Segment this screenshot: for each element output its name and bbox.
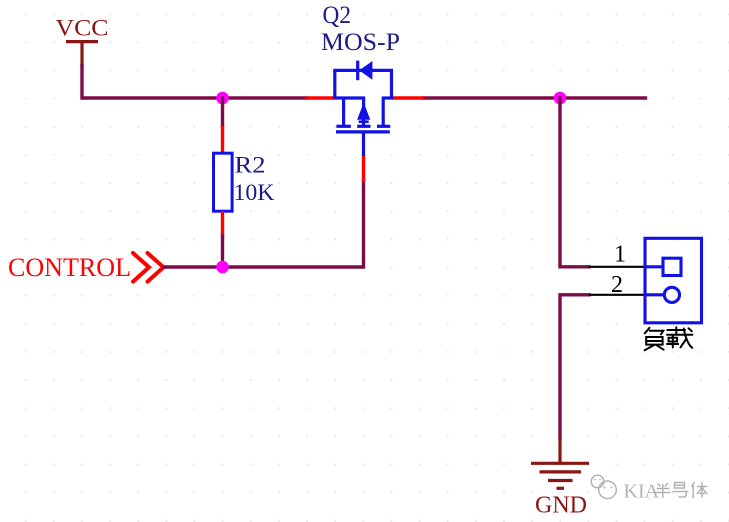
pin R2 pin2 (red) (221, 211, 224, 237)
svg-text:MOS-P: MOS-P (321, 29, 400, 56)
diode triangle (359, 61, 372, 80)
pin J1 pin 1 (black) (589, 266, 646, 268)
svg-text:VCC: VCC (56, 16, 109, 42)
junction at VCC rail / R2 (216, 92, 229, 105)
source internal step (382, 96, 393, 99)
wire load branch pin2 to GND (560, 295, 589, 438)
watermark text 半导体 (655, 482, 708, 498)
wire VCC stem to rail corner (82, 66, 307, 99)
导 (673, 483, 689, 498)
left vertical (drain) (333, 70, 336, 98)
pin R2 pin1 (red) (221, 126, 224, 154)
source contact bar (377, 125, 390, 128)
svg-text:Q2: Q2 (323, 2, 352, 29)
junction at CONTROL / R2 (216, 261, 229, 274)
pin Q2 gate (red) (362, 155, 365, 182)
负 (645, 328, 650, 334)
bulk vertical (362, 98, 365, 126)
bulk contact bar (357, 125, 370, 128)
pin J1 pin 2 (black) (589, 294, 646, 296)
gate plate (336, 130, 390, 133)
svg-text:2: 2 (611, 272, 623, 298)
ground symbol GND (531, 437, 589, 489)
watermark logo (chat bubbles) (591, 475, 616, 498)
pin Q2 source (right, red) (392, 96, 425, 99)
svg-text:CONTROL: CONTROL (8, 253, 131, 282)
wire R2 bottom to control net (221, 236, 224, 267)
体 (692, 482, 708, 498)
svg-text:10K: 10K (234, 180, 275, 206)
diode cathode bar (356, 61, 359, 81)
power symbol VCC (66, 42, 98, 67)
svg-text:1: 1 (614, 242, 626, 268)
port chevron CONTROL (133, 253, 164, 282)
source contact vertical (382, 98, 385, 126)
drain internal step (333, 96, 365, 99)
bulk arrow tail bar (359, 120, 369, 123)
wire load branch pin1 (560, 98, 589, 267)
bulk arrow (357, 103, 370, 120)
半 (655, 483, 671, 498)
connector pin1 stub (646, 265, 663, 268)
svg-text:GND: GND (535, 493, 587, 519)
connector J1 body (645, 238, 702, 322)
svg-text:KIA: KIA (624, 481, 660, 503)
gate lead (362, 132, 365, 156)
wire rail right of Q2 (424, 96, 646, 99)
transistor Q2 body (P-MOSFET) (333, 61, 393, 156)
connector pin2 stub (646, 293, 665, 296)
svg-text:R2: R2 (235, 153, 266, 179)
label 负载 (load) (645, 327, 693, 350)
body diode top line (333, 69, 393, 72)
pin Q2 drain (left, red) (306, 96, 335, 99)
junction at VCC rail / load branch (554, 92, 567, 105)
drain contact bar (336, 125, 351, 128)
connector pin2 round pad (664, 287, 679, 302)
载 (667, 329, 685, 331)
drain contact vertical (342, 98, 345, 126)
right vertical (source) (390, 70, 393, 98)
resistor R2 body (214, 153, 233, 211)
wire R2 top (221, 98, 224, 127)
connector pin1 square pad (663, 258, 681, 275)
wire CONTROL horizontal to gate (164, 181, 364, 267)
